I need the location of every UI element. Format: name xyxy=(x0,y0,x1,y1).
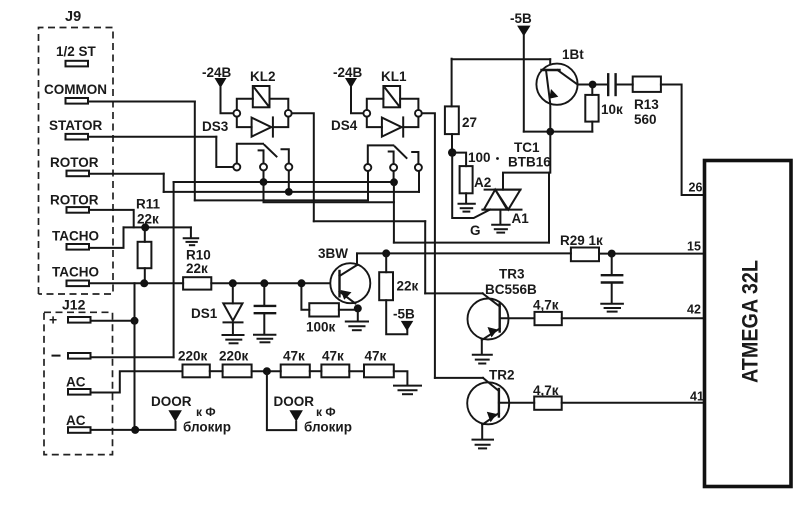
ground at TR2 emitter xyxy=(473,440,494,449)
wire chain to ground xyxy=(394,371,408,385)
ground under 100 xyxy=(459,204,475,212)
node cap junction xyxy=(260,279,268,287)
connector J9 dashed box xyxy=(39,28,114,295)
wire COMMON to KL1 common contact xyxy=(195,171,368,200)
svg-text:27: 27 xyxy=(462,115,477,130)
pin ROTOR2 xyxy=(67,207,90,213)
wire R29 to pin 15 xyxy=(599,253,705,255)
svg-text:41: 41 xyxy=(690,390,704,404)
resistor 47k third xyxy=(364,365,394,378)
wire STATOR horizontal xyxy=(88,136,216,138)
wire TACHO2 line xyxy=(89,282,183,284)
svg-text:AC: AC xyxy=(66,413,86,428)
pin AC2 J12 xyxy=(68,427,91,433)
svg-text:TACHO: TACHO xyxy=(52,229,99,244)
svg-text:100: 100 xyxy=(468,150,491,165)
wire STATOR down jog xyxy=(216,137,233,167)
svg-text:R13: R13 xyxy=(634,97,659,112)
svg-text:TACHO: TACHO xyxy=(52,265,99,280)
wire A2 to emitter vertical xyxy=(503,173,550,190)
supply -5V arrow top xyxy=(517,26,530,132)
relay contact KL2 blade xyxy=(265,145,277,157)
relay contact KL2 right xyxy=(282,149,293,170)
resistor 4.7k TR2 xyxy=(534,397,562,410)
arrow DOOR2 xyxy=(289,410,303,422)
svg-text:к Ф: к Ф xyxy=(316,405,336,419)
wire vertical x134 tacho to AC2 xyxy=(134,283,136,430)
diode DS1 xyxy=(223,283,242,334)
supply -24V arrow left xyxy=(215,78,234,113)
svg-text:STATOR: STATOR xyxy=(49,118,102,133)
svg-text:блокир: блокир xyxy=(183,420,231,435)
node collector 10k junction xyxy=(589,81,597,89)
svg-text:AC: AC xyxy=(66,375,86,390)
svg-text:ROTOR: ROTOR xyxy=(50,193,99,208)
svg-text:1/2 ST: 1/2 ST xyxy=(56,44,97,59)
wire TR3 base line xyxy=(425,292,483,294)
wire A1 down xyxy=(499,210,501,224)
svg-text:DS4: DS4 xyxy=(331,118,358,133)
pin minus J12 xyxy=(68,353,91,359)
svg-text:COMMON: COMMON xyxy=(44,82,107,97)
svg-text:KL2: KL2 xyxy=(250,69,276,84)
wire COMMON vertical down xyxy=(194,102,196,201)
node 3BW collector junction xyxy=(382,249,390,257)
wire KL2 middle riser to bus1 xyxy=(263,171,265,183)
wire 3BW collector up to node xyxy=(356,253,358,265)
svg-text:22к: 22к xyxy=(137,212,159,227)
resistor R13 xyxy=(633,77,661,92)
wire to pin 42 xyxy=(562,317,705,319)
resistor 4.7k TR3 xyxy=(535,312,562,325)
svg-text:-24В: -24В xyxy=(333,65,363,80)
capacitor filter xyxy=(255,283,275,334)
pin TACHO2 xyxy=(67,281,90,287)
wire TR3 collector to resistor xyxy=(500,317,535,319)
wire chain 1 xyxy=(210,370,223,372)
resistor 22k at 3BW collector xyxy=(379,253,407,334)
svg-text:220к: 220к xyxy=(178,349,208,364)
node KL1 middle bus1 end xyxy=(390,178,398,186)
svg-text:220к: 220к xyxy=(219,349,249,364)
svg-text:47к: 47к xyxy=(283,349,305,364)
resistor R29 xyxy=(571,248,599,262)
transistor 1Bt xyxy=(536,64,577,105)
wire 1Bt emitter down to A2 node xyxy=(549,104,550,243)
wire AC2 line to DOOR1 xyxy=(91,422,176,430)
diode DS4 xyxy=(367,117,419,137)
wire DS3 node to vertical x313 xyxy=(292,113,314,221)
resistor 100 xyxy=(452,153,472,203)
wire DS4 node right to v3 xyxy=(422,113,435,378)
wire bus2 rotor line xyxy=(164,191,419,193)
node KL2 middle on bus1 xyxy=(260,178,268,186)
ground at chain end xyxy=(394,386,421,395)
svg-text:47к: 47к xyxy=(365,349,387,364)
connector J12 dashed box xyxy=(44,312,113,454)
svg-text:BC556В: BC556В xyxy=(485,282,537,297)
wire 1Bt collector to cap xyxy=(578,84,607,86)
svg-text:J12: J12 xyxy=(62,297,86,313)
resistor R10 xyxy=(183,277,211,289)
ground at R11 node xyxy=(184,227,199,245)
svg-text:22к: 22к xyxy=(186,261,208,276)
wire collector node to R29 line xyxy=(357,252,571,254)
pin AC J12 xyxy=(68,389,91,395)
svg-text:TC1: TC1 xyxy=(514,140,540,155)
wire TR2 collector to resistor xyxy=(499,402,534,404)
pin STATOR xyxy=(66,134,89,140)
wire bus1 left end vertical down xyxy=(173,182,175,357)
relay contact KL2 middle xyxy=(259,150,267,170)
svg-text:R11: R11 xyxy=(136,197,161,212)
wire bus2 right end up to KL1 right contact xyxy=(418,171,420,192)
wire chain 3 xyxy=(310,370,322,372)
wire chain 2 xyxy=(252,370,281,372)
svg-text:DOOR: DOOR xyxy=(274,394,315,409)
wire v2 line C down to TR3 base level xyxy=(424,221,426,293)
svg-text:ROTOR: ROTOR xyxy=(50,155,99,170)
svg-text:TR3: TR3 xyxy=(499,267,525,282)
wire -5V rail horizontal xyxy=(452,58,551,60)
svg-text:1Bt: 1Bt xyxy=(562,47,584,62)
resistor R11 xyxy=(138,230,152,283)
wire ROTOR2 jog to R11 top xyxy=(89,210,134,228)
supply -24V arrow right xyxy=(345,78,363,113)
svg-text:42: 42 xyxy=(687,303,701,317)
relay contact KL2 common xyxy=(233,144,263,171)
wire KL1 middle riser to bus1 end xyxy=(393,171,395,182)
node R11 top junction xyxy=(141,223,149,231)
svg-text:G: G xyxy=(470,223,481,238)
svg-text:блокир: блокир xyxy=(304,420,352,435)
transistor TR2 xyxy=(467,378,509,425)
transistor TR3 xyxy=(468,293,509,340)
svg-text:100к: 100к xyxy=(306,320,336,335)
ground under pin15 capacitor xyxy=(601,304,623,312)
svg-text:-5В: -5В xyxy=(510,11,532,26)
wire emitter rail horizontal xyxy=(524,131,593,133)
svg-text:A1: A1 xyxy=(512,211,530,226)
supply -5V arrow lower xyxy=(401,321,414,331)
node AC2 junction xyxy=(131,426,139,434)
triac TC1 xyxy=(482,190,521,210)
wire TACHO1 jog up xyxy=(89,227,124,248)
capacitor coupling xyxy=(608,74,633,95)
resistor 47k first xyxy=(281,365,310,378)
relay contact KL1 common xyxy=(364,145,393,171)
diode DS3 xyxy=(237,117,288,137)
pin plus J12 xyxy=(68,317,91,323)
svg-text:3BW: 3BW xyxy=(318,246,348,261)
node 27 bottom junction xyxy=(448,148,456,156)
wire line1 to triac A2 node xyxy=(394,242,549,244)
relay contact KL1 middle xyxy=(389,152,397,172)
resistor 27 xyxy=(445,59,459,153)
wire ROTOR1 horizontal xyxy=(89,173,164,175)
transistor 3BW xyxy=(330,263,370,303)
ground at TR3 emitter xyxy=(473,355,492,364)
svg-text:-24В: -24В xyxy=(202,65,232,80)
wire KL2 right riser to bus2 xyxy=(288,171,290,192)
wire line C to v2 xyxy=(314,220,425,222)
resistor 220k first xyxy=(183,365,210,378)
svg-text:KL1: KL1 xyxy=(381,69,407,84)
svg-text:+: + xyxy=(49,312,57,328)
svg-text:DS3: DS3 xyxy=(202,119,229,134)
svg-text:R29 1к: R29 1к xyxy=(560,233,603,248)
op-amp U1 ATMEGA 32L box xyxy=(705,161,792,487)
wire R10 right to 3BW base xyxy=(211,282,339,284)
node J12 plus junction xyxy=(131,317,139,325)
wire TR3 emitter down xyxy=(481,340,483,354)
relay coil KL1 xyxy=(363,86,421,117)
speck between 100 and BTB16 xyxy=(496,157,499,160)
relay contact KL1 blade xyxy=(395,147,407,159)
wire ROTOR1 down to bus2 xyxy=(163,174,165,192)
svg-text:DS1: DS1 xyxy=(191,306,218,321)
node R11 bottom junction xyxy=(140,279,148,287)
ground under capacitor xyxy=(254,335,275,343)
arrow DOOR1 xyxy=(168,410,182,422)
wire to pin 41 xyxy=(562,402,705,404)
svg-text:47к: 47к xyxy=(322,349,344,364)
svg-text:26: 26 xyxy=(689,181,703,195)
wire R13 to pin 26 xyxy=(661,85,705,196)
wire gate from 27 node xyxy=(452,156,490,218)
svg-text:BTB16: BTB16 xyxy=(508,155,551,170)
svg-text:к Ф: к Ф xyxy=(196,405,216,419)
svg-text:ATMEGA 32L: ATMEGA 32L xyxy=(738,260,763,383)
pin ROTOR xyxy=(67,171,90,177)
svg-text:15: 15 xyxy=(687,240,701,254)
svg-text:J9: J9 xyxy=(65,9,81,25)
svg-text:560: 560 xyxy=(634,112,657,127)
wire bus1 minus rail xyxy=(174,181,394,183)
svg-text:TR2: TR2 xyxy=(489,368,515,383)
pin 1/2 ST xyxy=(66,61,89,67)
node R29 cap junction xyxy=(608,250,616,258)
resistor 100k xyxy=(301,283,353,316)
wire AC1 jog up to chain xyxy=(91,371,183,392)
relay coil KL2 xyxy=(233,86,291,117)
wire -5V rail into 1Bt base from top xyxy=(549,59,551,70)
ground at A1 xyxy=(492,225,509,233)
resistor 10k xyxy=(585,85,598,132)
svg-text:DOOR: DOOR xyxy=(151,394,192,409)
svg-text:A2: A2 xyxy=(474,175,491,190)
node 1Bt emitter junction xyxy=(546,128,554,136)
wire chain 4 xyxy=(349,370,364,372)
wire line B KL2 middle to v1 xyxy=(264,182,394,202)
svg-text:10к: 10к xyxy=(601,102,623,117)
wire TR2 base line xyxy=(435,377,483,379)
capacitor at pin 15 xyxy=(602,254,622,303)
wire J12 plus to node xyxy=(91,320,135,322)
ground at 3BW emitter xyxy=(346,308,368,330)
relay contact KL1 right xyxy=(412,152,422,171)
wire v1 down to line1 xyxy=(393,182,395,242)
ground under DS1 xyxy=(223,335,244,343)
resistor 47k second xyxy=(321,365,349,378)
svg-text:4,7к: 4,7к xyxy=(533,298,559,313)
node DS1 junction xyxy=(229,279,237,287)
pin TACHO xyxy=(67,244,90,250)
resistor 220k second xyxy=(223,365,252,378)
node 3BW emitter junction xyxy=(354,304,362,312)
svg-text:-5В: -5В xyxy=(393,307,415,322)
pin COMMON xyxy=(66,98,89,104)
wire R11 top node horizontal xyxy=(124,226,191,228)
node chain DOOR2 junction xyxy=(263,367,271,375)
wire COMMON horizontal xyxy=(88,101,195,103)
wire DOOR2 drop xyxy=(267,371,296,430)
wire J12 minus to bus1 vertical xyxy=(91,356,174,358)
label minus xyxy=(53,355,60,357)
wire TR2 emitter down xyxy=(481,425,483,439)
node KL2 right on bus2 xyxy=(285,188,293,196)
svg-text:22к: 22к xyxy=(397,279,419,294)
node 100k junction xyxy=(298,279,306,287)
